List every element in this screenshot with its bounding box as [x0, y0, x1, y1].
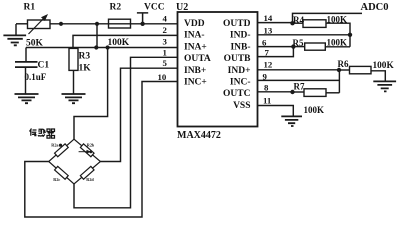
svg-text:INA-: INA- — [184, 31, 205, 41]
svg-text:5: 5 — [163, 58, 168, 68]
svg-text:IND-: IND- — [230, 31, 251, 41]
svg-text:R1: R1 — [24, 3, 36, 13]
resistor R4 — [293, 15, 351, 35]
resistor R3 — [69, 48, 91, 73]
svg-text:8: 8 — [264, 82, 269, 92]
wire — [258, 106, 294, 117]
svg-text:R2a: R2a — [51, 142, 59, 147]
wire — [50, 23, 178, 25]
svg-text:R7: R7 — [294, 82, 305, 92]
wire — [74, 57, 178, 208]
node 传感器 label — [30, 129, 55, 139]
wire — [25, 82, 178, 218]
wire — [16, 23, 28, 25]
svg-text:INC+: INC+ — [184, 78, 207, 88]
svg-text:100K: 100K — [327, 15, 348, 25]
svg-text:R6: R6 — [338, 59, 349, 69]
svg-text:INB+: INB+ — [184, 66, 206, 76]
wire — [338, 70, 340, 93]
svg-text:INA+: INA+ — [184, 42, 207, 52]
wire — [258, 47, 294, 57]
wire ADC0 net — [293, 13, 363, 23]
U2 right pin numbers — [262, 13, 273, 106]
wire — [96, 24, 98, 48]
resistor R7 — [293, 82, 340, 116]
capacitor C1 — [15, 48, 49, 95]
svg-text:100K: 100K — [304, 105, 325, 115]
wire — [258, 91, 293, 93]
node — [59, 22, 63, 26]
ground — [15, 94, 39, 103]
svg-text:1: 1 — [163, 47, 167, 57]
sensor bridge — [49, 139, 101, 184]
svg-text:14: 14 — [264, 13, 273, 23]
svg-text:0.1uF: 0.1uF — [25, 72, 47, 82]
resistor R5 — [293, 38, 351, 51]
svg-text:VCC: VCC — [144, 3, 165, 13]
wire — [26, 47, 178, 49]
resistor R1 — [24, 3, 51, 49]
svg-text:4: 4 — [163, 13, 168, 23]
svg-text:OUTA: OUTA — [184, 54, 211, 64]
svg-text:VSS: VSS — [233, 101, 250, 111]
svg-text:R3: R3 — [79, 52, 91, 62]
svg-text:10: 10 — [158, 72, 167, 82]
svg-text:OUTB: OUTB — [224, 54, 252, 64]
svg-text:VDD: VDD — [184, 19, 205, 29]
svg-text:11: 11 — [263, 96, 271, 106]
node — [94, 45, 98, 49]
wire — [258, 34, 351, 36]
node — [290, 90, 294, 94]
node — [337, 68, 341, 72]
wire — [258, 46, 294, 48]
svg-text:R2b: R2b — [87, 142, 95, 147]
wire — [73, 35, 178, 48]
svg-text:R2c: R2c — [53, 177, 60, 182]
node — [290, 21, 294, 25]
U2 left pin labels — [184, 19, 211, 88]
U2 right pin labels — [223, 19, 251, 111]
svg-text:R2: R2 — [110, 3, 122, 13]
wire — [100, 68, 177, 161]
resistor R6 — [338, 59, 395, 82]
power VCC — [137, 3, 165, 26]
svg-text:C1: C1 — [38, 61, 50, 71]
svg-text:INC-: INC- — [230, 78, 251, 88]
svg-text:OUTC: OUTC — [223, 89, 251, 99]
wire — [258, 69, 340, 71]
ground — [373, 81, 396, 91]
wire — [349, 35, 351, 47]
svg-text:INB-: INB- — [230, 42, 250, 52]
wire — [74, 48, 108, 140]
svg-text:3: 3 — [163, 37, 168, 47]
wire — [73, 70, 75, 94]
svg-text:2: 2 — [163, 25, 168, 35]
svg-text:6: 6 — [262, 37, 267, 47]
node — [348, 33, 352, 37]
svg-text:100K: 100K — [327, 38, 348, 48]
resistor R2 — [108, 3, 131, 49]
svg-text:ADC0: ADC0 — [361, 2, 389, 13]
ground — [281, 116, 302, 126]
svg-text:100K: 100K — [108, 38, 130, 48]
svg-text:R2d: R2d — [86, 177, 94, 182]
svg-text:12: 12 — [264, 59, 273, 69]
svg-text:7: 7 — [265, 47, 270, 57]
svg-text:IND+: IND+ — [228, 66, 251, 76]
wire — [258, 79, 340, 81]
svg-text:R5: R5 — [293, 38, 304, 48]
op-amp U2 — [176, 2, 258, 141]
node — [291, 44, 295, 48]
node — [106, 45, 110, 49]
svg-text:U2: U2 — [176, 2, 188, 13]
wire — [258, 22, 293, 24]
node — [95, 22, 99, 26]
U2 left pin numbers — [158, 13, 168, 82]
svg-text:MAX4472: MAX4472 — [177, 130, 221, 141]
svg-text:100K: 100K — [373, 61, 395, 71]
ground — [62, 94, 86, 103]
svg-text:13: 13 — [264, 26, 273, 36]
svg-text:1K: 1K — [79, 64, 92, 74]
svg-text:OUTD: OUTD — [223, 19, 251, 29]
ground — [3, 24, 26, 45]
svg-text:R4: R4 — [293, 15, 304, 25]
